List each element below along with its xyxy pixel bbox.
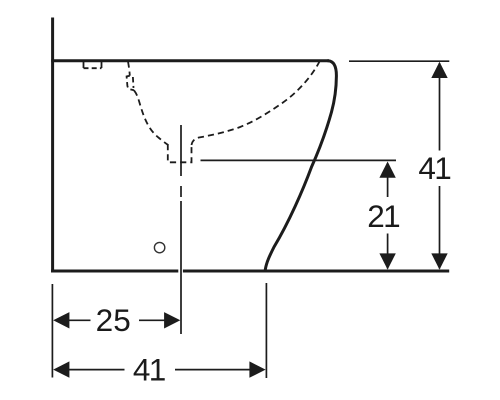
dim line 41 bottom left segment	[69, 369, 125, 371]
wall line	[51, 18, 54, 273]
top extension line for dim 41 right	[349, 60, 449, 62]
centerline upper segment	[180, 125, 182, 176]
svg-text:41: 41	[133, 351, 165, 387]
right extension line below floor for dim 41 bottom	[265, 283, 267, 378]
svg-text:41: 41	[418, 150, 450, 186]
centerline short dash	[180, 186, 182, 197]
dim line 25 left segment	[69, 319, 91, 321]
dim line 41 right lower	[439, 186, 441, 269]
horizontal reference line at trap level	[201, 159, 397, 161]
dashed rim slot	[127, 76, 134, 91]
floor line left segment	[51, 270, 178, 273]
drain circle	[154, 242, 164, 252]
dim line 25 right segment	[139, 319, 166, 321]
dashed trap pocket	[168, 144, 192, 162]
dashed tap hole bottom	[84, 67, 102, 69]
svg-text:21: 21	[367, 198, 399, 234]
top line of bidet	[51, 59, 329, 62]
arrow down dim 41 right	[431, 253, 447, 269]
arrow right dim 41 bottom	[249, 361, 265, 377]
centerline lower segment	[180, 201, 182, 334]
dashed bowl left curve	[134, 90, 168, 145]
dashed bowl left descent	[128, 62, 130, 76]
dashed rim slot right wall	[132, 77, 135, 88]
arrow right dim 25	[164, 312, 180, 328]
left extension line below floor	[51, 284, 53, 378]
dim line 41 bottom right segment	[175, 369, 251, 371]
arrow up dim 21	[379, 162, 395, 178]
dashed tap hole right tick	[101, 62, 103, 68]
dim line 21 lower	[387, 234, 389, 269]
arrow down dim 21	[379, 253, 395, 269]
dim line 41 right upper	[439, 63, 441, 151]
floor line right segment	[183, 270, 449, 273]
right profile curve of bidet	[265, 61, 336, 270]
arrow up dim 41 right	[431, 62, 447, 78]
dashed tap hole left tick	[83, 62, 85, 68]
dashed bowl right curve	[192, 62, 320, 146]
dim line 21 upper	[387, 163, 389, 197]
arrow left dim 41 bottom	[53, 361, 69, 377]
arrow left dim 25	[53, 312, 69, 328]
svg-text:25: 25	[96, 302, 131, 338]
